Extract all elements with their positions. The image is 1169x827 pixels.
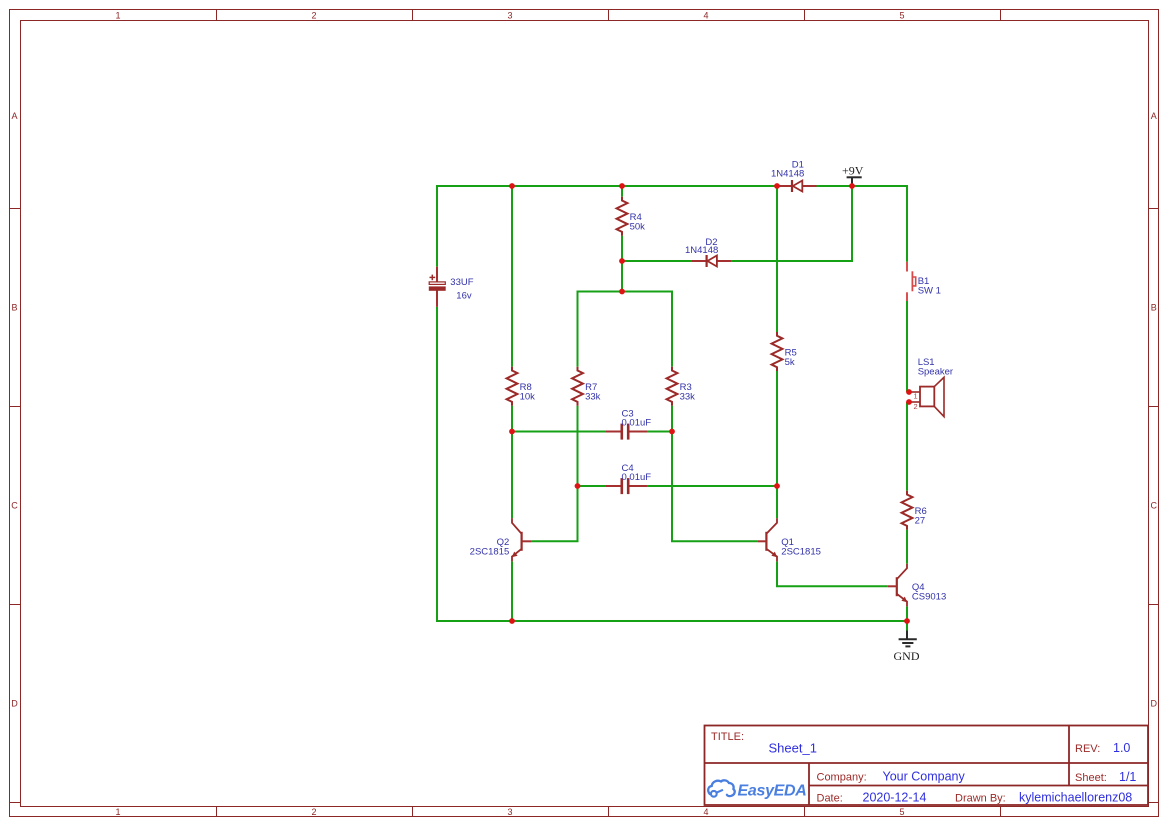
junction node top rail / R4 xyxy=(619,183,625,189)
svg-text:REV:: REV: xyxy=(1075,743,1100,755)
wire node C4L to Q2 base xyxy=(532,486,578,541)
junction node C3 left xyxy=(509,429,515,435)
svg-text:kylemichaellorenz08: kylemichaellorenz08 xyxy=(1019,791,1132,805)
svg-text:D: D xyxy=(11,699,18,709)
wire speaker pin 2 to R6 xyxy=(906,402,908,491)
svg-text:5: 5 xyxy=(899,807,904,817)
junction node top rail / R5 / D1 xyxy=(774,183,780,189)
svg-text:3: 3 xyxy=(507,11,512,21)
svg-text:CS9013: CS9013 xyxy=(912,591,946,602)
svg-text:A: A xyxy=(11,111,17,121)
svg-text:50k: 50k xyxy=(630,222,646,233)
junction node top rail / R8 xyxy=(509,183,515,189)
wire D2 left segment xyxy=(622,260,692,262)
capacitor C4 0.01uF xyxy=(606,478,647,494)
wire D2 right segment to +9V xyxy=(732,186,852,261)
wire R5 to node C4R xyxy=(776,371,778,486)
junction node +9V xyxy=(849,183,855,189)
wire B1 to speaker pin 1 xyxy=(906,301,908,392)
speaker pin dot 2 xyxy=(906,399,912,405)
wire R8 branch top xyxy=(511,186,513,367)
EasyEDA logo xyxy=(708,780,806,799)
svg-text:3: 3 xyxy=(507,807,512,817)
wire node C4R to Q1 collector xyxy=(776,486,778,518)
svg-text:SW 1: SW 1 xyxy=(918,286,941,297)
wire left rail upper xyxy=(436,185,438,267)
junction node bottom rail / Q2 xyxy=(509,618,515,624)
svg-text:Date:: Date: xyxy=(817,793,843,805)
svg-text:2SC1815: 2SC1815 xyxy=(781,546,821,557)
svg-text:C: C xyxy=(11,501,18,511)
svg-text:16v: 16v xyxy=(456,290,472,301)
wire R6 to Q4 collector xyxy=(906,530,908,564)
svg-text:4: 4 xyxy=(703,11,708,21)
junction node C3 right xyxy=(669,429,675,435)
wire right rail upper xyxy=(906,185,908,262)
wire fork to R7 xyxy=(577,291,579,367)
wire node C3L to Q2 collector xyxy=(511,432,513,519)
junction node C4 left xyxy=(575,483,581,489)
svg-text:Drawn By:: Drawn By: xyxy=(955,793,1006,805)
svg-text:Your Company: Your Company xyxy=(883,770,966,784)
junction node bottom rail / GND xyxy=(904,618,910,624)
wire R8 to node C3L xyxy=(511,406,513,432)
wire C4 right xyxy=(647,485,777,487)
svg-text:2: 2 xyxy=(914,402,918,411)
svg-text:C: C xyxy=(1151,501,1158,511)
resistor R6 27 xyxy=(902,491,913,530)
svg-text:2SC1815: 2SC1815 xyxy=(470,546,510,557)
capacitor C3 0.01uF xyxy=(606,424,647,440)
wire fork horizontal xyxy=(578,291,673,293)
svg-text:2020-12-14: 2020-12-14 xyxy=(863,791,927,805)
svg-text:1N4148: 1N4148 xyxy=(771,168,804,179)
svg-text:1/1: 1/1 xyxy=(1119,770,1136,784)
svg-text:27: 27 xyxy=(915,516,926,527)
resistor R4 50k xyxy=(617,197,628,236)
wire left rail lower xyxy=(436,307,438,622)
svg-text:A: A xyxy=(1151,111,1157,121)
resistor R5 5k xyxy=(772,332,783,371)
wire R5 branch xyxy=(776,186,778,332)
wire fork below R4 xyxy=(621,261,623,292)
svg-text:1N4148: 1N4148 xyxy=(685,245,718,256)
svg-text:5: 5 xyxy=(899,11,904,21)
wire C3 left xyxy=(512,431,606,433)
diode D1 1N4148 xyxy=(777,180,817,192)
svg-text:1: 1 xyxy=(914,392,918,401)
svg-text:Sheet:: Sheet: xyxy=(1075,772,1107,784)
wire R3 to node C3R xyxy=(671,406,673,432)
wire bottom rail xyxy=(437,620,907,622)
wire top rail xyxy=(437,185,907,187)
svg-text:10k: 10k xyxy=(520,392,536,403)
svg-text:33k: 33k xyxy=(680,392,696,403)
svg-text:B: B xyxy=(11,303,17,313)
svg-text:2: 2 xyxy=(311,11,316,21)
svg-text:1: 1 xyxy=(115,807,120,817)
svg-text:B: B xyxy=(1151,303,1157,313)
svg-text:TITLE:: TITLE: xyxy=(711,731,744,743)
wire C3 right xyxy=(647,431,672,433)
junction node fork xyxy=(619,289,625,295)
wire Q4 emitter to bottom rail xyxy=(906,606,908,622)
wire C4 left xyxy=(578,485,607,487)
ground GND xyxy=(899,621,917,646)
diode D2 1N4148 xyxy=(692,255,732,267)
svg-text:2: 2 xyxy=(311,807,316,817)
svg-text:0.01uF: 0.01uF xyxy=(622,472,652,483)
svg-text:D: D xyxy=(1151,699,1158,709)
power flag +9V xyxy=(847,177,862,186)
wire Q1 emitter to Q4 base xyxy=(777,561,888,586)
wire R7 to node C4L xyxy=(577,406,579,486)
resistor R8 10k xyxy=(507,367,518,406)
svg-text:1: 1 xyxy=(115,11,120,21)
svg-text:EasyEDA: EasyEDA xyxy=(738,783,807,800)
junction node R4 / D2 xyxy=(619,258,625,264)
svg-text:+9V: +9V xyxy=(842,164,864,178)
wire Q2 emitter to bottom rail xyxy=(511,561,513,621)
wire R4 top lead xyxy=(621,186,623,197)
svg-text:GND: GND xyxy=(894,649,920,663)
speaker LS1 xyxy=(909,377,944,416)
junction node C4 right xyxy=(774,483,780,489)
speaker pin dot 1 xyxy=(906,389,912,395)
transistor Q1 2SC1815 xyxy=(758,518,778,561)
svg-text:33k: 33k xyxy=(585,392,601,403)
resistor R3 33k xyxy=(667,367,678,406)
svg-text:Company:: Company: xyxy=(817,772,867,784)
svg-text:Speaker: Speaker xyxy=(918,366,953,377)
svg-text:4: 4 xyxy=(703,807,708,817)
transistor Q4 CS9013 xyxy=(888,564,907,607)
svg-text:0.01uF: 0.01uF xyxy=(622,418,652,429)
svg-text:5k: 5k xyxy=(785,357,795,368)
wire node C3R to Q1 base xyxy=(672,432,758,542)
switch B1 SW 1 xyxy=(907,262,916,301)
svg-text:1.0: 1.0 xyxy=(1113,741,1130,755)
title block xyxy=(705,726,1149,806)
svg-text:Sheet_1: Sheet_1 xyxy=(769,741,817,756)
svg-text:33UF: 33UF xyxy=(450,277,473,288)
transistor Q2 2SC1815 xyxy=(512,518,532,561)
wire fork to R3 xyxy=(671,291,673,367)
wire R4 bottom to node D2L xyxy=(621,236,623,261)
resistor R7 33k xyxy=(572,367,583,406)
capacitor C1 33UF 16v electrolytic xyxy=(429,267,445,307)
